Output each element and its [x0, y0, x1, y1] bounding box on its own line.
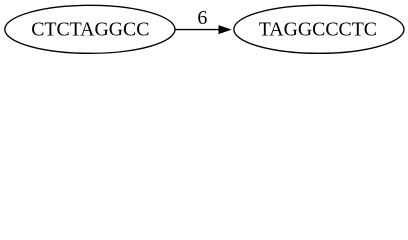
svg-text:CTCTAGGCC: CTCTAGGCC: [31, 18, 149, 40]
svg-text:6: 6: [197, 7, 207, 29]
svg-text:TAGGCCCTC: TAGGCCCTC: [259, 18, 377, 40]
